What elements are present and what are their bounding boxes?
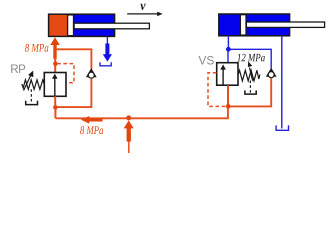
label 12 MPa (237, 54, 265, 62)
valve RP internal flow arrow (52, 74, 58, 96)
tank T4 (blue, right) (276, 125, 288, 130)
tank T2 (RP drain) (26, 101, 38, 105)
wire C2 cap-side port down (blue) (227, 36, 229, 50)
node N1 (orange junction dot) (53, 105, 58, 110)
cylinder C2 rod (246, 22, 324, 27)
flow arrow on bottom line (orange, left) (81, 116, 103, 124)
valve VS drain line (dashed) (249, 81, 251, 93)
valve VS internal flow arrow (220, 64, 226, 85)
valve RP square (44, 73, 66, 97)
pilot line RP (dashed orange) (57, 64, 74, 83)
cylinder C1 cap-side chamber (orange fluid) (49, 15, 67, 36)
cylinder C1 piston (68, 15, 74, 36)
cylinder C2 body (219, 14, 290, 36)
node pilot tap (orange dot) (53, 62, 58, 67)
node supply junction dot (126, 115, 131, 120)
valve VS spring (238, 70, 260, 81)
wire check-valve branch top (orange) (57, 49, 92, 69)
cylinder C2 piston (240, 15, 246, 35)
wire P1 vertical (C1 port to RP valve) (54, 58, 56, 73)
wire VS valve bottom to node N2 (orange) (227, 85, 229, 106)
valve RP adjustment arrow (24, 71, 34, 91)
tank T1 (blue, under C1 arrow) (100, 62, 111, 66)
wire check-valve branch bottom (orange) (57, 79, 92, 108)
valve RP drain line (dashed) (30, 89, 32, 103)
wire C2 rod-side port down to tank (blue) (281, 36, 283, 129)
check valve CV1 (86, 68, 97, 78)
valve VS adjustment arrow (248, 61, 253, 81)
label 8 MPa (bottom line) (80, 126, 103, 134)
check valve CV2 (266, 68, 277, 78)
valve RP spring (22, 80, 45, 90)
node blue junction dot (226, 47, 231, 52)
svg-text:VS: VS (198, 53, 214, 67)
wire bottom supply line (orange) (55, 107, 228, 119)
flow arrow out of C1 (blue, down) (103, 44, 112, 62)
svg-text:RP: RP (10, 63, 26, 76)
flow arrow into C1 cap side (orange, up) (50, 37, 60, 59)
wire RP valve to node N1 (54, 96, 56, 107)
tank T3 (VS drain) (245, 90, 256, 94)
wire blue branch to check valve CV2 (228, 49, 271, 68)
wire N1 down to bottom line (54, 107, 56, 118)
wire C2 port to VS valve (blue) (227, 49, 229, 63)
flow arrow pump supply (orange, up) (124, 120, 134, 153)
pilot line VS (dashed orange) (208, 73, 226, 107)
wire C1 rod-side port (blue) (106, 36, 108, 44)
label 8 MPa (at C1 port) (25, 44, 49, 52)
cylinder C1 rod (74, 23, 149, 29)
valve VS square (217, 63, 238, 85)
cylinder C1 body (49, 14, 115, 36)
wire CV2 bottom to node N2 (orange) (230, 78, 271, 106)
velocity arrow v (127, 12, 162, 17)
label v (140, 4, 145, 10)
node N2 (orange junction dot) (226, 104, 231, 109)
